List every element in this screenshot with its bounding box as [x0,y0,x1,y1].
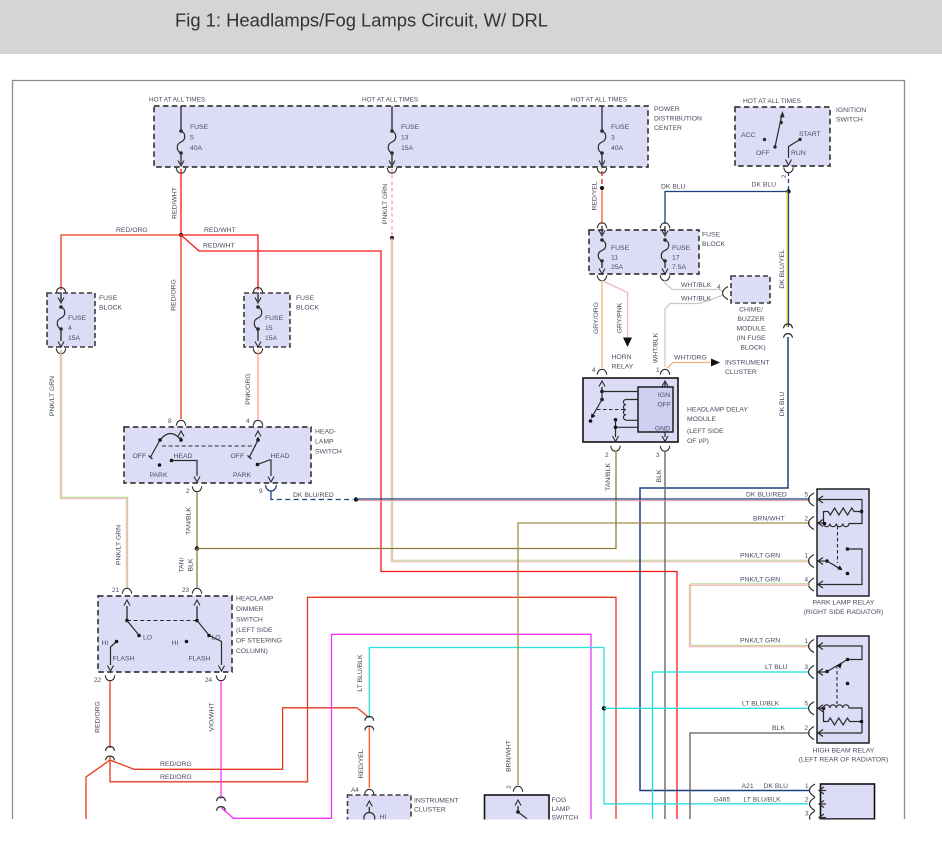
fog lamp switch box [485,795,550,821]
wire WHT/BLK fuse17 to chime module [665,280,724,292]
pin 9 exit arrow [268,477,274,483]
svg-text:LAMP: LAMP [315,439,334,446]
pin 8 internal arrow [178,431,184,437]
park relay switch pivot dot [825,559,829,563]
wire VIO/WHT to fog lamp switch feed [221,634,591,819]
delay module pin 2 connector [611,446,621,451]
svg-text:BLOCK): BLOCK) [740,345,765,352]
svg-text:FUSE: FUSE [190,124,209,131]
svg-text:WHT/BLK: WHT/BLK [681,282,712,289]
svg-text:HEADLAMP: HEADLAMP [236,596,274,603]
fuse F5 feed wire [180,106,182,131]
svg-text:BLOCK: BLOCK [99,305,123,312]
svg-text:SWITCH: SWITCH [315,449,342,456]
connector pin 3 [810,811,827,824]
svg-text:DK BLU/YEL: DK BLU/YEL [779,249,786,289]
svg-text:PNK/LT GRN: PNK/LT GRN [740,638,780,645]
high beam pin 3 connector [809,666,826,679]
svg-text:IGNITION: IGNITION [836,107,866,114]
svg-text:FUSE: FUSE [265,315,284,322]
svg-text:DK BLU: DK BLU [661,184,686,191]
svg-text:DISTRIBUTION: DISTRIBUTION [654,116,702,123]
fuse F3 exit arrow [599,161,605,167]
svg-text:FUSE: FUSE [401,124,420,131]
fog switch internal arrow [515,800,521,806]
inline connector on DK BLU/YEL [784,324,793,338]
wire DK BLU down to A21 connector [640,337,810,791]
svg-text:1: 1 [805,783,809,790]
svg-text:SWITCH: SWITCH [836,117,863,124]
ignition START contact [798,138,801,141]
PARK contact dot (left) [158,463,162,467]
svg-text:OFF: OFF [756,150,770,157]
svg-text:FUSE: FUSE [296,295,315,302]
fuse F4 [57,305,65,331]
svg-text:3: 3 [611,135,615,142]
svg-text:OFF: OFF [133,453,147,460]
wire RED/ORG branch east (upper) [110,708,369,770]
svg-text:LT BLU/BLK: LT BLU/BLK [742,701,780,708]
pin 2 exit arrow [194,477,200,483]
ignition pin 2 connector [784,167,794,172]
HI indicator lamp circle [364,813,375,824]
relay coil [623,400,638,421]
wire LT BLU/BLK to high beam relay pin 5 [604,707,808,709]
instrument cluster box [348,795,412,821]
park relay resistor [824,508,862,524]
label POWER DISTRIBUTION CENTER [654,106,702,132]
svg-text:HIGH BEAM RELAY: HIGH BEAM RELAY [813,748,875,755]
svg-text:(LEFT SIDE: (LEFT SIDE [687,428,724,435]
svg-text:(LEFT REAR OF RADIATOR): (LEFT REAR OF RADIATOR) [799,757,889,764]
svg-text:SWITCH: SWITCH [236,617,263,624]
fuse F15 [254,305,262,331]
wire PNK/ORG fuse15 to headlamp pin 4 [257,350,259,419]
svg-text:OFF: OFF [657,402,671,409]
svg-text:PARK: PARK [150,472,168,479]
high beam resistor [824,708,862,725]
svg-text:GRY/ORG: GRY/ORG [593,302,600,334]
fuse block box [589,230,699,274]
high beam rail contact dot [846,658,850,662]
svg-text:IGN: IGN [658,392,670,399]
svg-text:WHT/ORG: WHT/ORG [674,355,707,362]
fuse F13 exit arrow [389,161,395,167]
svg-text:4: 4 [68,325,72,332]
svg-text:RED/ORG: RED/ORG [160,761,192,768]
svg-text:INSTRUMENT: INSTRUMENT [414,798,459,805]
fuse F11 [598,238,606,262]
wire RED/WHT from fuse 5 [180,169,182,235]
wire PNK/LT GRN fuse4 to dimmer pin 21 (green) [62,350,128,588]
park relay coil feed node [823,522,827,526]
svg-text:POWER: POWER [654,106,680,113]
wire LT BLU/BLK upper run [369,648,808,804]
svg-text:BLOCK: BLOCK [296,305,320,312]
fuse F3 feed wire [601,106,603,131]
right FLASH wire to pin 24 [209,636,222,666]
svg-text:HOT AT ALL TIMES: HOT AT ALL TIMES [571,97,627,104]
svg-text:HEAD: HEAD [271,453,290,460]
fuse F17 value label [672,245,691,271]
fog switch arm [518,812,527,819]
svg-text:40A: 40A [611,145,624,152]
svg-text:TAN/BLK: TAN/BLK [186,507,193,535]
left wiper pivot dot [179,438,183,442]
park relay pin 5 connector [809,493,826,506]
junction node TAN/BLK [195,546,199,550]
svg-text:FLASH: FLASH [189,656,211,663]
fuse 15 exit arrow [257,329,259,341]
delay module pin 4 internal arrow [599,381,605,387]
internal switch pivot dot [600,398,604,402]
wire DK BLU/RED to park relay pin 5 (red stripe) [358,500,810,502]
park relay rail node [860,510,864,514]
svg-text:15A: 15A [265,335,278,342]
headlamp switch box [124,427,311,483]
svg-text:INSTRUMENT: INSTRUMENT [725,360,770,367]
ignition OFF contact [773,145,776,148]
wire PNK/LT GRN to park lamp relay pin 1 (pink) [391,238,810,562]
internal dashed actuator line [597,409,624,411]
internal wire to GND row [615,420,617,437]
svg-text:2: 2 [805,725,809,732]
fuse 17 exit connector [660,275,670,280]
svg-text:11: 11 [611,255,618,262]
svg-text:CHIME/: CHIME/ [739,307,763,314]
high beam spare contact dot [846,682,850,686]
fuse 17 entry connector [660,223,670,228]
wire BLK high beam pin 2 [690,733,810,819]
svg-text:2: 2 [805,516,809,523]
park relay pin 2 connector [809,517,826,530]
high beam switch pivot dot [825,670,829,674]
high beam pin1 rail [825,646,862,660]
svg-text:FOG: FOG [552,797,567,804]
fuse F5 exit arrow [178,161,184,167]
junction node LT BLU/BLK [602,706,606,710]
dimmer pin 22 connector [105,675,115,680]
svg-text:BLK: BLK [188,558,195,571]
delay module inner block [638,387,673,432]
instrument cluster pin A4 connector [365,789,375,794]
svg-text:PNK/ORG: PNK/ORG [245,373,252,404]
pin 23 internal arrow [194,600,200,606]
inline connector RED/YEL to LT BLU/BLK [365,717,374,731]
right wiper arm toward OFF [248,440,259,459]
svg-text:BRN/WHT: BRN/WHT [506,740,513,772]
svg-text:BLK: BLK [772,725,785,732]
label HEADLAMP DIMMER SWITCH [236,596,282,656]
high beam switch arm [828,660,848,672]
fuse F5 value label [190,124,209,152]
svg-text:5: 5 [805,492,809,499]
fuse F3 value label [611,124,630,152]
svg-text:HI: HI [172,640,179,647]
internal node dot on pin2 line [614,426,618,430]
fuse 15 entry arrow [257,292,259,301]
svg-text:MODULE: MODULE [736,326,766,333]
svg-text:MODULE: MODULE [687,416,717,423]
right wiper pivot dot [256,438,260,442]
wire RED/ORG from pin 22 [109,681,111,748]
left wiper end dot [158,438,162,442]
svg-text:3: 3 [805,664,809,671]
fuse 11 exit arrow [601,261,603,268]
svg-text:PNK/LT GRN: PNK/LT GRN [49,376,56,416]
svg-text:LT BLU: LT BLU [765,664,788,671]
dimmer pin 21 connector [122,588,132,593]
wire RED/WHT east branch to fuse 15 [181,235,258,290]
svg-text:A21: A21 [742,783,754,790]
power distribution center box [154,106,648,167]
svg-text:FUSE: FUSE [611,245,630,252]
wire PNK/LT GRN park pin4 to high beam pin1 (green) [691,584,810,646]
fuse 11 exit connector [597,275,607,280]
left wiper arm [127,621,138,635]
headlamp switch pin 9 connector (blue) [266,485,277,497]
svg-text:TAN/BLK: TAN/BLK [605,463,612,491]
svg-text:RUN: RUN [791,150,806,157]
svg-text:RED/ORG: RED/ORG [171,279,178,311]
inner block labels IGN OFF GND [655,392,671,433]
svg-text:5: 5 [805,701,809,708]
internal wire to IGN [602,391,638,393]
svg-text:2: 2 [781,174,788,178]
svg-text:DIMMER: DIMMER [236,606,264,613]
wire TAN/BLK headlamp pin2 down [196,492,198,549]
wire DK BLU/YEL (yellow stripe) [786,192,788,328]
wire PNK/LT GRN to park lamp relay pin 1 (green) [393,238,810,560]
splice node on PNK/LT GRN [390,236,394,240]
svg-text:GRY/PNK: GRY/PNK [617,302,624,333]
svg-text:PNK/LT GRN: PNK/LT GRN [740,577,780,584]
svg-text:FUSE: FUSE [611,124,630,131]
headlamp switch pin 2 connector [192,486,202,491]
park relay pin 1 connector [809,555,826,568]
inline connector on RED/ORG [106,747,115,761]
wire DK BLU/RED dashed from pin 9 [271,497,353,500]
svg-text:PNK/LT GRN: PNK/LT GRN [740,553,780,560]
svg-text:21: 21 [112,587,120,594]
fog switch pin 2 connector [513,786,523,791]
fuse F3 output wire [601,153,603,164]
svg-text:(IN FUSE: (IN FUSE [736,335,766,342]
svg-text:BLOCK: BLOCK [702,241,726,248]
splice node on RED/YEL [600,186,604,190]
svg-text:RED/ORG: RED/ORG [95,701,102,733]
svg-text:PNK/LT GRN: PNK/LT GRN [382,184,389,224]
fuse 4 entry connector [56,288,66,293]
svg-text:START: START [799,131,821,138]
high beam coil [824,705,863,733]
ignition output arrow [786,160,792,166]
svg-text:GND: GND [655,426,670,433]
svg-text:FUSE: FUSE [702,232,721,239]
park relay upper contact dot [846,547,850,551]
high beam pivot to pin 3 [825,671,827,674]
high beam pin 2 connector [809,727,826,740]
svg-text:HEAD: HEAD [174,453,193,460]
pin 22 exit arrow [108,666,114,672]
park lamp relay box [817,489,869,596]
mechanical link dashed [127,620,197,622]
fuse 4 entry arrow [60,292,62,301]
right pivot dot [195,619,199,623]
svg-text:4: 4 [805,577,809,584]
svg-text:2: 2 [605,452,609,459]
fuse F11 value label [611,245,630,271]
junction node fuse5 output [179,233,183,237]
park relay switch arm [827,561,839,568]
svg-text:BUZZER: BUZZER [737,316,764,323]
fuse F4 value label [68,315,87,342]
fuse 4 exit connector [56,348,66,353]
mechanical link dashed [162,445,256,447]
left wiper arc [160,434,181,441]
fuse F3 exit connector [597,168,607,173]
svg-text:8: 8 [168,418,172,425]
horn relay arrowhead [623,338,632,348]
wire BRN/WHT park relay pin2 to fog switch [518,523,810,785]
svg-text:3: 3 [656,452,660,459]
svg-text:4: 4 [717,284,721,291]
wire WHT/ORG to instrument cluster [667,363,710,369]
svg-text:OF STEERING: OF STEERING [236,638,282,645]
internal node dot lower [614,418,618,422]
label FUSE BLOCK (right) [296,295,320,312]
fuse F15 value label [265,315,284,342]
svg-text:22: 22 [94,677,102,684]
left HI contact dot [115,640,119,644]
wire RED/ORG branch to lower left [86,757,110,819]
svg-text:HEADLAMP DELAY: HEADLAMP DELAY [687,407,748,414]
svg-text:RED/WHT: RED/WHT [203,243,235,250]
fuse F13 feed wire [391,106,393,131]
svg-text:OFF: OFF [231,453,245,460]
svg-text:HOT AT ALL TIMES: HOT AT ALL TIMES [149,97,205,104]
svg-text:15A: 15A [68,335,81,342]
wire RED/YEL to instrument cluster [368,727,370,788]
fuse F13 exit connector [387,168,397,173]
headlamp switch pin 4 connector [253,420,263,425]
svg-text:2: 2 [506,785,513,789]
white mask below clip line [0,820,942,849]
wire BLK delay pin 3 down [664,451,666,819]
wire RED/ORG to headlamp switch pin 8 [180,235,182,419]
wire PNK/LT GRN dashed from fuse 13 [391,169,393,238]
svg-text:LAMP: LAMP [552,806,571,813]
pin 4 internal arrow [255,431,261,437]
delay module pin 4 connector [597,369,607,374]
wire LT BLU to high beam pin 3 [653,672,809,819]
svg-text:(LEFT SIDE: (LEFT SIDE [236,627,273,634]
svg-text:DK BLU: DK BLU [779,392,786,417]
title bar [0,0,942,54]
svg-text:15A: 15A [401,145,414,152]
wire TAN/BLK junction to dimmer pin 23 [196,549,198,589]
svg-text:1: 1 [805,638,809,645]
svg-text:WHT/BLK: WHT/BLK [681,296,712,303]
svg-text:COLUMN): COLUMN) [236,648,268,655]
svg-text:DK BLU/RED: DK BLU/RED [746,492,787,499]
svg-text:CLUSTER: CLUSTER [414,807,446,814]
left LO contact dot [137,634,141,638]
svg-text:VIO/WHT: VIO/WHT [209,702,216,731]
wire PNK/LT GRN fuse4 to dimmer pin 21 (pink) [60,350,126,588]
connector pin 2 [810,798,827,811]
svg-text:9: 9 [259,488,263,495]
fuse F5 [177,129,185,155]
WHT/ORG arrowhead [711,359,720,367]
wire GRY/PNK to horn relay [603,281,628,337]
svg-text:LO: LO [143,635,152,642]
wire DK BLU/RED to park relay pin 5 (blue) [356,498,810,500]
wire DK BLU to fuse 17 [665,192,789,225]
svg-text:5: 5 [190,135,194,142]
internal wire HEAD to pin 2 [172,461,198,477]
fuse F5 exit connector [176,168,186,173]
dimmer pin 23 connector [192,588,202,593]
park relay coil [824,512,863,527]
fuse 11 entry connector [597,223,607,228]
pin 2 exit arrow [613,436,619,442]
svg-text:15: 15 [265,325,273,332]
wire DK BLU/YEL (blue) [788,192,790,328]
high beam pin 1 connector [809,640,826,653]
svg-text:LT BLU/BLK: LT BLU/BLK [744,797,782,804]
svg-text:BLK: BLK [656,469,663,482]
wire PNK/LT GRN park pin4 to high beam pin1 (pink) [689,585,810,647]
ignition wiper arm [775,115,782,147]
ignition switch box [735,107,830,166]
svg-text:RED/ORG: RED/ORG [160,774,192,781]
wire RED/YEL to fuse 11 [601,190,603,224]
svg-text:FUSE: FUSE [99,295,118,302]
label HEAD-LAMP SWITCH [315,429,342,456]
fuse 15 entry connector [253,288,263,293]
svg-text:ACC: ACC [741,132,755,139]
high beam arm arrowhead [837,663,842,669]
svg-text:RED/WHT: RED/WHT [204,227,236,234]
label FUSE BLOCK (left) [99,295,123,312]
internal switch arm arrowhead [591,414,595,419]
dimmer pin 24 connector [216,675,226,680]
pin 21 internal arrow [124,600,130,606]
svg-text:DK BLU: DK BLU [764,783,789,790]
headlamp switch pin 8 connector [176,420,186,425]
svg-text:WHT/BLK: WHT/BLK [653,332,660,363]
svg-text:2: 2 [805,797,809,804]
right LO contact dot [207,634,211,638]
svg-text:RED/ORG: RED/ORG [116,227,148,234]
svg-text:BRN/WHT: BRN/WHT [753,516,785,523]
fuse 17 entry arrow [664,226,666,234]
wire RED/WHT long branch [181,235,677,819]
svg-text:HEAD-: HEAD- [315,429,336,436]
label IGNITION SWITCH [836,107,866,124]
right wiper arm [197,621,208,635]
GND wire [664,432,666,437]
svg-text:HORN: HORN [612,354,632,361]
svg-text:4: 4 [592,367,596,374]
high beam actuator dashed [836,665,838,704]
svg-text:LT BLU/BLK: LT BLU/BLK [357,654,364,692]
fuse 15 exit connector [253,348,263,353]
svg-text:HOT AT ALL TIMES: HOT AT ALL TIMES [743,98,802,105]
svg-text:CENTER: CENTER [654,125,682,132]
svg-text:HOT AT ALL TIMES: HOT AT ALL TIMES [362,97,418,104]
